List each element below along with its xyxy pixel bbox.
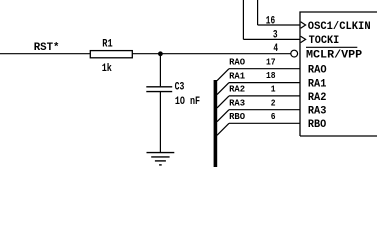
svg-text:RAO: RAO	[308, 65, 327, 77]
capacitor C3	[146, 87, 172, 92]
wire pin 3 net horizontal to chip	[243, 38, 300, 40]
IC U1 body outline	[300, 12, 377, 136]
pin name T0CKI	[309, 35, 340, 47]
svg-text:RST*: RST*	[34, 42, 60, 54]
resistor R1 value 1k	[102, 63, 113, 75]
wire pin 3 net vertical from top edge	[242, 0, 244, 39]
pin number 18	[266, 70, 276, 81]
pin name RA1	[308, 79, 327, 91]
bus bar	[214, 80, 218, 167]
pin number 6	[271, 111, 276, 122]
node label RA3	[229, 98, 245, 109]
pin name RA2	[308, 92, 327, 104]
pin clock arrow T0CKI	[301, 36, 306, 42]
svg-text:RA2: RA2	[229, 84, 245, 95]
svg-text:1O nF: 1O nF	[175, 96, 200, 108]
pin name RA0	[308, 65, 327, 77]
svg-text:1k: 1k	[102, 63, 113, 75]
pin name MCLR/VPP	[306, 50, 363, 62]
resistor R1	[90, 51, 132, 58]
capacitor C3 reference label	[175, 82, 185, 94]
pin number 3	[273, 30, 278, 42]
wire RST* net right segment to MCLR bubble	[132, 53, 291, 55]
svg-text:16: 16	[266, 15, 275, 27]
svg-text:RA1: RA1	[229, 70, 245, 81]
wire RA3	[229, 109, 300, 111]
svg-text:RBO: RBO	[229, 111, 245, 122]
svg-text:MCLR/VPP: MCLR/VPP	[306, 50, 363, 62]
wire RA1	[229, 82, 300, 84]
svg-text:RA2: RA2	[308, 92, 327, 104]
svg-text:RBO: RBO	[308, 119, 327, 131]
wire from C3 down to ground	[159, 92, 161, 153]
wire from junction down to C3	[159, 54, 161, 87]
bus entry RA2	[217, 96, 229, 108]
bus entry RA1	[217, 83, 229, 95]
pin number 4	[273, 43, 278, 55]
pin number 1	[271, 84, 276, 95]
node label RA2	[229, 84, 245, 95]
svg-text:C3: C3	[175, 82, 185, 94]
resistor R1 reference label	[102, 38, 113, 50]
wire RA2	[229, 95, 300, 97]
node label RA1	[229, 70, 245, 81]
inversion bubble on MCLR pin	[291, 50, 298, 57]
wire RST* net left segment	[0, 53, 90, 55]
pin number 16	[266, 15, 275, 27]
pin name RA3	[308, 106, 327, 118]
svg-text:1: 1	[271, 84, 276, 95]
bus entry RB0	[217, 123, 229, 135]
svg-text:OSC1/CLKIN: OSC1/CLKIN	[308, 21, 371, 33]
node label RB0	[229, 111, 245, 122]
wire pin 16 net horizontal to chip	[258, 24, 300, 26]
node label RA0	[229, 57, 245, 68]
wire RA0	[229, 68, 300, 70]
junction dot at R1/C3 node	[158, 51, 163, 56]
node RST* label	[34, 42, 60, 54]
pin name OSC1/CLKIN	[308, 21, 371, 33]
pin name MCLR/VPP overline	[306, 46, 357, 48]
pin name RB0	[308, 119, 327, 131]
pin number 17	[266, 56, 276, 67]
svg-text:3: 3	[273, 30, 278, 42]
pin clock arrow OSC1/CLKIN	[301, 22, 306, 28]
bus entry RA3	[217, 110, 229, 122]
svg-text:6: 6	[271, 111, 276, 122]
svg-text:RAO: RAO	[229, 57, 245, 68]
svg-text:4: 4	[273, 43, 278, 55]
wire RB0	[229, 122, 300, 124]
ground	[147, 153, 175, 165]
svg-text:TOCKI: TOCKI	[309, 35, 340, 47]
svg-text:2: 2	[271, 97, 276, 108]
svg-text:R1: R1	[102, 38, 113, 50]
capacitor C3 value 10 nF	[175, 96, 200, 108]
svg-text:RA3: RA3	[229, 98, 245, 109]
svg-text:17: 17	[266, 56, 276, 67]
svg-text:18: 18	[266, 70, 276, 81]
bus entry RA0	[217, 69, 229, 81]
svg-text:RA3: RA3	[308, 106, 327, 118]
pin number 2	[271, 97, 276, 108]
svg-text:RA1: RA1	[308, 79, 327, 91]
wire pin 16 net vertical from top edge	[257, 0, 259, 25]
